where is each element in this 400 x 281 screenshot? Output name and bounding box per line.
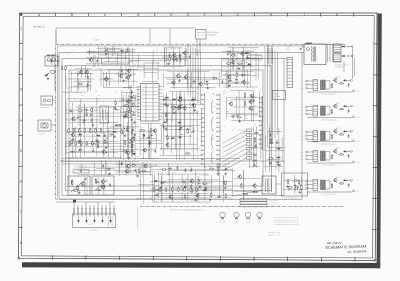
- power transformer T3 windings: [311, 47, 316, 62]
- junction: [185, 183, 186, 184]
- svg-text:220: 220: [131, 137, 133, 139]
- resistor R48: [141, 170, 146, 171]
- svg-text:0.047: 0.047: [108, 78, 111, 80]
- frame top scale ticks and letters: [55, 13, 353, 17]
- svg-text:1.5K: 1.5K: [100, 54, 103, 56]
- svg-text:220: 220: [195, 172, 197, 174]
- buffer stage transistor Q4: [51, 70, 55, 74]
- svg-text:220V: 220V: [300, 159, 303, 161]
- diode D20: [341, 45, 345, 47]
- capacitor C42: [275, 142, 279, 144]
- IF module internal rungs: [142, 88, 159, 118]
- svg-text:220: 220: [154, 148, 156, 150]
- svg-text:X: CARRIER 455KC: X: CARRIER 455KC: [269, 206, 282, 208]
- ground: [104, 146, 107, 149]
- transistor socket bottom-view 2SB56: [245, 212, 250, 220]
- junction: [300, 184, 301, 185]
- svg-text:100: 100: [166, 142, 168, 144]
- svg-text:NOTE: RESISTANCE IN OHM, CAP I: NOTE: RESISTANCE IN OHM, CAP IN UF: [274, 224, 299, 226]
- svg-text:220: 220: [72, 50, 74, 52]
- junction: [134, 139, 135, 140]
- wire mesh (62,160)-(158,176): [65, 162, 153, 176]
- svg-text:33K: 33K: [163, 150, 165, 152]
- svg-text:10K: 10K: [240, 54, 242, 56]
- osc label blobs: [47, 55, 50, 56]
- transistor Q44: [182, 105, 186, 110]
- svg-text:117V: 117V: [300, 155, 303, 157]
- wire drop from parts box: [199, 39, 201, 52]
- transistor Q28: [171, 80, 175, 85]
- junction: [347, 55, 348, 56]
- svg-text:4.7K: 4.7K: [104, 140, 107, 142]
- svg-text:S-METER ZERO ADJ: S-METER ZERO ADJ: [74, 166, 87, 168]
- capacitor C39: [255, 144, 257, 148]
- svg-text:220: 220: [97, 132, 99, 134]
- output terminals of PS3: [347, 131, 354, 142]
- svg-text:2SA101: 2SA101: [235, 72, 240, 74]
- resistor R47: [138, 169, 139, 174]
- diode D21: [160, 182, 164, 184]
- svg-text:Z: SEE TABLE 2: Z: SEE TABLE 2: [269, 200, 279, 202]
- svg-text:2SC394: 2SC394: [214, 73, 219, 75]
- svg-text:2SC372: 2SC372: [168, 52, 173, 54]
- junction: [288, 189, 289, 190]
- transformer core of PS4: [320, 151, 325, 161]
- svg-text:IN34A: IN34A: [191, 200, 195, 202]
- IF module IC1 tall block: [141, 84, 160, 122]
- shield enclosure dashed boundary: [56, 44, 346, 206]
- svg-text:2SB407: 2SB407: [336, 77, 341, 79]
- svg-text:6: 6: [20, 180, 22, 184]
- resistor R36: [212, 78, 217, 79]
- svg-text:100P: 100P: [245, 118, 248, 120]
- svg-text:9V DC: 9V DC: [356, 141, 360, 143]
- svg-text:0.047: 0.047: [203, 181, 206, 183]
- svg-text:33K: 33K: [230, 199, 232, 201]
- ground: [166, 118, 169, 121]
- svg-text:RELAY: RELAY: [286, 49, 291, 51]
- junction: [121, 163, 122, 164]
- capacitor C13: [76, 117, 80, 119]
- svg-text:10K: 10K: [164, 119, 166, 121]
- junction: [213, 77, 214, 78]
- capacitor C61: [184, 168, 186, 172]
- svg-text:0.047: 0.047: [96, 58, 99, 60]
- svg-text:2SC372: 2SC372: [148, 134, 153, 136]
- wire top feed: [55, 30, 57, 44]
- microphone jack J1: [41, 96, 53, 105]
- svg-text:10K: 10K: [249, 99, 251, 101]
- capacitor C31: [165, 127, 167, 131]
- ground: [253, 164, 256, 167]
- frame outer border: [19, 13, 377, 261]
- power unit PS2 input terminals: [306, 106, 313, 115]
- resistor R49: [131, 165, 136, 166]
- cable bundle right of power box: [328, 45, 333, 63]
- transistor socket bottom-view 2SC372: [220, 212, 225, 220]
- wire mesh (96,46)-(136,66): [98, 46, 135, 65]
- section enclosure box 4: [69, 70, 263, 186]
- svg-text:4.7: 4.7: [179, 59, 181, 61]
- transistor Q43: [176, 105, 180, 110]
- svg-text:0.047: 0.047: [105, 49, 108, 51]
- label boxes above meter: [73, 170, 81, 173]
- ground: [238, 67, 241, 70]
- svg-text:10K: 10K: [98, 95, 100, 97]
- transistor Q5: [103, 76, 107, 81]
- transistor Q16: [126, 99, 130, 104]
- capacitor C16: [70, 151, 74, 153]
- resistor R26: [86, 141, 87, 146]
- junction: [246, 62, 247, 63]
- resistor R21: [95, 128, 96, 133]
- wire rails cluster (75,66): [75, 66, 91, 78]
- svg-text:0.047: 0.047: [71, 180, 74, 182]
- svg-text:0.047: 0.047: [199, 203, 202, 205]
- svg-text:1K: 1K: [224, 180, 226, 182]
- svg-text:220: 220: [66, 92, 68, 94]
- wire mesh (150,164)-(235,204): [151, 164, 235, 202]
- transformer primary of PS5: [313, 180, 318, 191]
- svg-text:IN34A: IN34A: [122, 133, 126, 135]
- svg-text:472: 472: [137, 157, 139, 159]
- svg-text:0.047: 0.047: [88, 140, 91, 142]
- svg-text:0.047: 0.047: [198, 178, 201, 180]
- svg-text:472: 472: [242, 100, 244, 102]
- svg-text:0.047: 0.047: [114, 52, 117, 54]
- resistor R4: [179, 53, 180, 58]
- svg-text:10K: 10K: [79, 194, 81, 196]
- svg-text:IN34A: IN34A: [167, 49, 171, 51]
- wire rails cluster (116,66): [116, 66, 136, 82]
- capacitor C18: [104, 133, 106, 137]
- transistor Q20: [81, 181, 86, 187]
- wire rails cluster (150,163): [150, 163, 232, 176]
- svg-text:33K: 33K: [216, 165, 218, 167]
- svg-text:10K: 10K: [207, 186, 209, 188]
- ground: [129, 74, 132, 77]
- capacitor C5: [189, 55, 191, 59]
- resistor R75: [287, 179, 288, 184]
- svg-text:472: 472: [69, 138, 71, 140]
- junction: [86, 112, 87, 113]
- transistor Q18: [129, 137, 133, 142]
- svg-text:4.7: 4.7: [233, 95, 235, 97]
- resistor R63: [178, 187, 179, 192]
- svg-text:472: 472: [163, 122, 165, 124]
- ground: [127, 156, 130, 159]
- junction: [95, 144, 96, 145]
- resistor R51: [77, 185, 78, 190]
- svg-text:IN34A: IN34A: [208, 87, 212, 89]
- junction: [277, 140, 278, 141]
- svg-text:472: 472: [135, 95, 137, 97]
- ground: [134, 169, 137, 172]
- svg-text:100: 100: [92, 147, 94, 149]
- svg-text:2SC394: 2SC394: [237, 130, 242, 132]
- svg-text:472: 472: [86, 174, 88, 176]
- svg-text:IN34A: IN34A: [243, 164, 247, 166]
- svg-text:NOTE: RESISTANCE IN OHM, CAP I: NOTE: RESISTANCE IN OHM, CAP IN UF: [274, 219, 299, 221]
- wire mesh (85,46)-(136,57): [87, 46, 128, 56]
- resistor R15: [121, 129, 122, 134]
- ground: [113, 135, 116, 138]
- capacitor C54: [182, 181, 186, 183]
- resistor R27: [92, 141, 93, 146]
- wire harness bundle right: [265, 46, 278, 150]
- svg-text:1K: 1K: [171, 135, 173, 137]
- transistor Q25: [249, 93, 253, 98]
- svg-text:33K: 33K: [66, 53, 68, 55]
- output terminals of PS1: [347, 80, 354, 92]
- junction: [106, 138, 107, 139]
- svg-text:100: 100: [165, 94, 167, 96]
- svg-text:10K: 10K: [83, 117, 85, 119]
- svg-text:100: 100: [70, 108, 72, 110]
- ground: [124, 134, 127, 137]
- capacitor C71: [179, 58, 181, 62]
- transistor Q33: [125, 169, 129, 174]
- svg-text:USB: USB: [196, 102, 199, 104]
- svg-text:2SA101: 2SA101: [300, 184, 305, 186]
- svg-text:2SC394: 2SC394: [211, 138, 216, 140]
- resistor R32: [187, 129, 188, 134]
- wire mesh (160,46)-(190,68): [163, 46, 187, 67]
- ground: [167, 62, 170, 65]
- svg-text:2SC394: 2SC394: [140, 67, 145, 69]
- wire rails cluster (283,175): [283, 175, 306, 194]
- capacitor C70: [175, 57, 177, 61]
- resistor R38: [254, 137, 255, 142]
- svg-text:2SC372: 2SC372: [183, 179, 188, 181]
- ground: [78, 191, 81, 194]
- svg-text:9V DC: 9V DC: [356, 91, 360, 93]
- transistor Q11: [71, 116, 75, 121]
- wire rails cluster (250,126): [250, 126, 262, 168]
- svg-text:33K: 33K: [176, 97, 178, 99]
- transistor Q27: [183, 75, 187, 80]
- resistor R25: [81, 141, 82, 146]
- svg-text:0.047: 0.047: [228, 78, 231, 80]
- svg-text:472: 472: [156, 170, 158, 172]
- ground: [114, 106, 117, 109]
- svg-text:2SC372: 2SC372: [206, 80, 211, 82]
- ground: [180, 126, 183, 129]
- svg-text:220: 220: [120, 48, 122, 50]
- svg-text:FOR PCB POWER (100V): FOR PCB POWER (100V): [321, 94, 337, 96]
- svg-text:0.047: 0.047: [277, 145, 280, 147]
- capacitor C63: [126, 126, 128, 130]
- svg-text:100P: 100P: [105, 56, 108, 58]
- ground: [276, 161, 279, 164]
- resistor ladder boxes: [247, 129, 252, 132]
- ground: [149, 141, 152, 144]
- phone jack J2: [38, 120, 51, 131]
- transistor Q10: [126, 68, 130, 73]
- leader line to bottom view note: [137, 207, 139, 228]
- wire mesh (118,84)-(140,120): [119, 87, 140, 117]
- resistor R37: [207, 81, 208, 86]
- ground: [131, 146, 134, 149]
- svg-text:1.5K: 1.5K: [139, 136, 142, 138]
- resistor R52: [185, 194, 186, 199]
- resistor R12: [71, 140, 72, 145]
- ground: [85, 113, 88, 116]
- ground: [160, 186, 163, 189]
- secondary leads of PS5: [326, 181, 330, 189]
- power unit PS5 input terminals: [306, 180, 313, 189]
- transistor Q40: [237, 174, 241, 179]
- svg-text:10K: 10K: [248, 164, 250, 166]
- ground: [238, 120, 241, 123]
- capacitor C48: [131, 90, 133, 94]
- resistor R53: [202, 183, 207, 184]
- ground: [136, 175, 139, 178]
- resistor R44: [130, 112, 135, 113]
- svg-text:E: E: [170, 13, 172, 17]
- resistor R73: [301, 185, 302, 190]
- capacitor C19: [103, 142, 107, 144]
- svg-text:10K: 10K: [181, 158, 183, 160]
- output transformer T2: [262, 176, 276, 194]
- svg-text:2SB407: 2SB407: [336, 177, 341, 179]
- resistor R PS5b: [331, 183, 332, 188]
- svg-text:100P: 100P: [83, 81, 86, 83]
- svg-text:0.047: 0.047: [191, 120, 194, 122]
- svg-text:100: 100: [184, 167, 186, 169]
- capacitor C53: [95, 181, 99, 183]
- resistor R77: [287, 187, 292, 188]
- ground: [193, 109, 196, 112]
- resistor R67: [161, 169, 166, 170]
- section enclosure box 2: [62, 58, 284, 195]
- svg-text:1K: 1K: [154, 178, 156, 180]
- capacitor C9: [121, 69, 123, 73]
- diode D19: [154, 194, 158, 196]
- junction: [180, 76, 181, 77]
- svg-text:0.047: 0.047: [131, 109, 134, 111]
- junction: [128, 131, 129, 132]
- bottom rail of PS2: [307, 117, 353, 119]
- output terminals of PS5: [347, 180, 354, 192]
- svg-text:220: 220: [257, 55, 259, 57]
- svg-text:3: 3: [20, 88, 22, 92]
- svg-text:100V: 100V: [300, 107, 303, 109]
- capacitor C2: [96, 59, 98, 63]
- resistor R PS1a: [339, 83, 344, 84]
- resistor R6: [226, 63, 231, 64]
- svg-text:1.5K: 1.5K: [241, 47, 244, 49]
- svg-text:0.047: 0.047: [294, 177, 297, 179]
- capacitor C49: [107, 168, 111, 170]
- wire rails cluster (66,177): [66, 177, 90, 195]
- svg-text:2SC394: 2SC394: [101, 132, 106, 134]
- svg-text:8: 8: [20, 241, 22, 245]
- capacitor C64: [128, 142, 132, 144]
- capacitor C38: [252, 159, 256, 161]
- diode D17: [269, 142, 273, 144]
- svg-text:NOTE: RESISTANCE IN OHM, CAP I: NOTE: RESISTANCE IN OHM, CAP IN UF: [274, 222, 299, 224]
- svg-text:220: 220: [255, 130, 257, 132]
- svg-text:4.7K: 4.7K: [276, 140, 279, 142]
- junction: [168, 138, 169, 139]
- capacitor C28: [163, 98, 167, 100]
- svg-text:2SC372: 2SC372: [254, 189, 259, 191]
- svg-text:0.047: 0.047: [118, 86, 121, 88]
- svg-text:2SB407: 2SB407: [336, 148, 341, 150]
- diode D11: [163, 121, 167, 123]
- transistor Q22: [248, 99, 252, 104]
- junction: [164, 181, 165, 182]
- svg-text:4.7K: 4.7K: [230, 101, 233, 103]
- svg-text:100P: 100P: [113, 101, 116, 103]
- svg-text:100P: 100P: [236, 138, 239, 140]
- svg-text:220: 220: [233, 129, 235, 131]
- svg-text:MODE SW: MODE SW: [87, 224, 94, 226]
- transformer core of PS1: [320, 80, 325, 90]
- svg-text:100P: 100P: [106, 84, 109, 86]
- resistor R40: [150, 128, 151, 133]
- ground: [103, 185, 106, 188]
- wire rails cluster (224,70): [224, 70, 250, 88]
- junction: [271, 140, 272, 141]
- resistor R46: [133, 102, 134, 107]
- svg-text:100P: 100P: [214, 173, 217, 175]
- svg-text:IN34A: IN34A: [168, 103, 172, 105]
- ground: [270, 138, 273, 141]
- svg-text:1.5K: 1.5K: [77, 114, 80, 116]
- svg-text:5: 5: [20, 149, 22, 153]
- junction: [77, 186, 78, 187]
- svg-text:33K: 33K: [180, 94, 182, 96]
- resistor R PS4b: [331, 154, 332, 159]
- ground: [190, 184, 193, 187]
- svg-text:2SC394: 2SC394: [223, 91, 228, 93]
- ground: [150, 134, 153, 137]
- ground: [192, 103, 195, 106]
- svg-text:4.7K: 4.7K: [192, 96, 195, 98]
- frame right scale ticks: [372, 44, 378, 230]
- svg-text:USB: USB: [212, 130, 215, 132]
- svg-text:0.047: 0.047: [92, 163, 95, 165]
- svg-text:100P: 100P: [240, 60, 243, 62]
- ground: [104, 139, 107, 142]
- resistor R74: [293, 180, 298, 181]
- resistor R33: [166, 113, 167, 118]
- wire mesh (62,70)-(96,95): [63, 70, 95, 92]
- svg-text:R1 4.7K R2 10K: R1 4.7K R2 10K: [100, 52, 110, 54]
- svg-text:220V: 220V: [300, 114, 303, 116]
- wire rails cluster (92,177): [92, 177, 114, 195]
- svg-text:AP-206 (?): AP-206 (?): [33, 26, 45, 29]
- wire rails cluster (110,95): [110, 95, 139, 160]
- junction: [126, 150, 127, 151]
- svg-text:10K: 10K: [65, 184, 67, 186]
- svg-text:FOR PCB POWER (100V): FOR PCB POWER (100V): [321, 165, 337, 167]
- ground: [133, 133, 136, 136]
- svg-text:4.7: 4.7: [228, 91, 230, 93]
- resistor R71: [253, 191, 258, 192]
- svg-text:4.7K: 4.7K: [227, 60, 230, 62]
- svg-text:100V: 100V: [300, 152, 303, 154]
- ground: [164, 103, 167, 106]
- svg-text:100P: 100P: [226, 111, 229, 113]
- svg-text:0.01: 0.01: [228, 74, 231, 76]
- svg-text:472: 472: [259, 88, 261, 90]
- svg-text:220: 220: [138, 168, 140, 170]
- resistor R31: [167, 135, 168, 140]
- note box rows: [240, 199, 267, 201]
